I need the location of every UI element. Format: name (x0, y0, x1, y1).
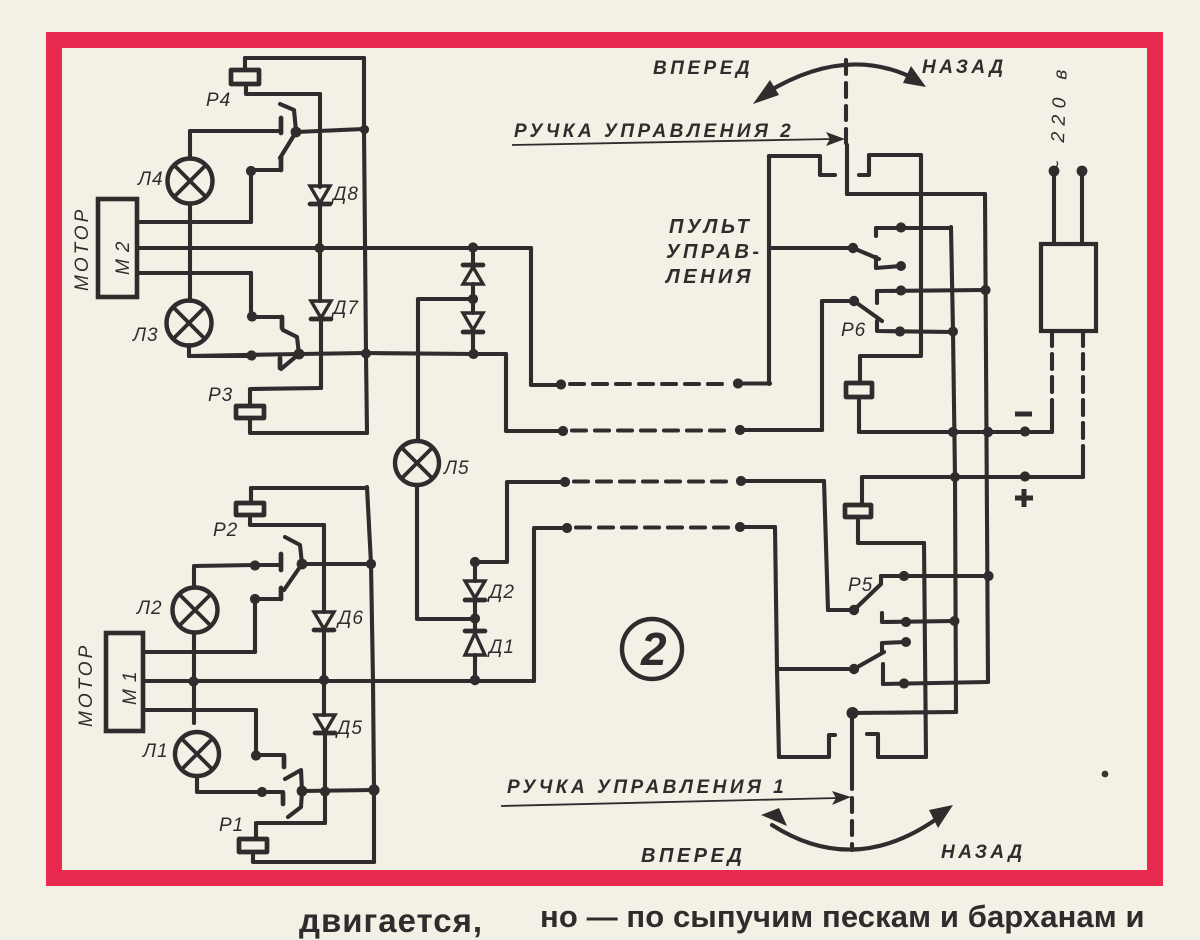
wire: top wire from relay P4 to right trunk (245, 56, 364, 60)
wire: series pair bottom (471, 332, 475, 354)
node: dot on P6 s2 lower row (895, 326, 905, 336)
svg-text:Р1: Р1 (219, 815, 244, 836)
wire: row4 leg down to bracket (775, 527, 779, 757)
svg-text:ВПЕРЕД: ВПЕРЕД (653, 58, 753, 79)
node: handle1 axis dot (847, 707, 859, 719)
wire: AC lead left (1052, 173, 1056, 244)
node: plus bus corner dot (1020, 471, 1030, 481)
wire: P4 contact row from lamp L4 (190, 129, 279, 133)
figure number circle 2 (622, 619, 682, 679)
wire: D2 column top (473, 562, 477, 581)
wire: L1 bottom to P1 row (197, 776, 262, 792)
wire: feed to P3 coil top (250, 388, 321, 406)
wire: row 2 right to P6 pivot riser (740, 428, 822, 432)
wire: L5 top branch (418, 299, 473, 441)
contact arm: P1 lower arm (288, 791, 302, 817)
wire: P2 coil bottom lead (250, 515, 324, 525)
arrowhead: handle 1 pointer (832, 791, 851, 805)
node: series pair / P3 row junction (468, 349, 478, 359)
contact bar: P1 lower fixed (281, 793, 286, 804)
node: lamp column / middle lead (188, 676, 198, 686)
wire: pult right trunk (985, 194, 988, 682)
node: dot on P5 s2 lower row (899, 678, 909, 688)
wire: link row 4 left riser (534, 528, 567, 681)
node: minus bus / right trunk (983, 427, 993, 437)
arrowhead: handle 2 pointer (826, 132, 845, 146)
contact arm: P3 upper arm (283, 330, 299, 354)
wire: supply plus output solid elbow (1081, 462, 1085, 477)
wire: L5 bottom branch (417, 485, 475, 619)
diode (lower of series pair, pointing down) (463, 313, 483, 332)
paper speck (1102, 771, 1109, 778)
label minus sign (1015, 412, 1032, 417)
contact arm: P6 switch2 (854, 301, 882, 321)
relay coil P4 (231, 70, 259, 84)
wire: lead3 riser to P3 upper throw (249, 273, 253, 316)
wire: lamp L4 top stub (188, 131, 192, 158)
node: P5 switch2 pivot (849, 664, 859, 674)
arrowhead: arc top left (753, 80, 779, 104)
svg-text:Л4: Л4 (136, 169, 164, 190)
diode D5 (315, 715, 335, 733)
arrowhead: arc bottom right (929, 805, 953, 828)
wire: P6 coil bottom lead (857, 397, 861, 432)
diode D6 (314, 612, 334, 630)
node: trunk / P4 contact row junction (360, 125, 369, 134)
node: P6 switch1 pivot (848, 243, 858, 253)
wire: M2 lead 2 (middle) (138, 246, 531, 250)
wire: M1 lead 3 (143, 708, 256, 712)
arrow arc (handle 1 travel) (772, 812, 946, 850)
wire: P6 switch2 pivot feed riser (820, 301, 824, 430)
wire: row 4 right to P5 lower pivot riser (740, 525, 775, 529)
contact hook: P6 s2 upper (875, 292, 879, 303)
svg-text:~ 220 в: ~ 220 в (1047, 63, 1072, 172)
svg-text:Д8: Д8 (331, 184, 359, 205)
wire: link row 2 left riser (506, 354, 563, 431)
contact arm: P2 lower arm (284, 564, 302, 590)
wire: minus bus (859, 430, 1052, 434)
node: AC terminal right (1077, 166, 1088, 177)
wire: lower right trunk (367, 487, 374, 862)
wire: diode column upper segment (318, 94, 322, 187)
wire: D6 to M1 middle lead (322, 630, 326, 680)
wire: D5 down to P1 coil feed (323, 733, 327, 823)
contact arm: P2 upper arm (285, 537, 302, 564)
node: P4 contact common (291, 127, 302, 138)
node: row 3 right terminal (736, 476, 746, 486)
node: P5 switch1 pivot (849, 605, 859, 615)
wire: lamp column L2 to L1 (192, 633, 196, 723)
node: lower trunk / P2 row junction (366, 559, 376, 569)
node: trunk / P5 row1 junction (983, 571, 993, 581)
svg-text:Д6: Д6 (336, 608, 364, 629)
contact: P5 s2 lower throw hook (881, 664, 885, 684)
node: corner dot P2 lower throw row (250, 594, 260, 604)
node: AC terminal left (1049, 166, 1060, 177)
wire: mid vertical (P6 row to handle1 axis) (951, 227, 956, 712)
power supply box (1041, 244, 1096, 331)
contact arm: P1 upper arm (285, 770, 302, 791)
wire: P4 coil bottom lead (246, 84, 320, 94)
svg-text:Р4: Р4 (206, 90, 231, 111)
wire: plus bus (862, 475, 1083, 479)
relay coil P5 (845, 505, 871, 517)
wire: P3 common to trunk (299, 353, 366, 354)
node: dot on P5 s1 upper row (899, 571, 909, 581)
wire: P1 coil bottom to trunk (253, 852, 374, 862)
node: P5 s2 upper stub terminal (901, 637, 911, 647)
svg-text:Р6: Р6 (841, 320, 866, 341)
node: column / M1 middle lead (319, 675, 329, 685)
arrowhead: arc bottom left (761, 808, 787, 826)
wire: lead3 riser to P1 upper throw (254, 710, 258, 755)
wire: M2 lead 3 (138, 271, 251, 275)
node: corner dot on P1 row (257, 787, 267, 797)
arrow arc (handle 2 travel) (766, 64, 915, 93)
wire: lamp L2 top to P2 row (194, 565, 255, 587)
wire: P4 common to trunk (296, 129, 364, 132)
svg-text:Д5: Д5 (335, 718, 363, 739)
wire: M2 lead 1 (138, 220, 251, 224)
wire: series diode column top (471, 248, 475, 265)
label plus sign (1015, 489, 1033, 507)
wire: lead1 riser to P2 lower throw (253, 599, 257, 652)
node: trunk / P3 contact row junction (361, 349, 371, 359)
wire: P4 coil top lead (243, 58, 247, 70)
lamp L2 (173, 588, 218, 633)
node: row 4 left terminal (562, 523, 572, 533)
node: corner dot P3 upper throw row (247, 311, 257, 321)
contact arm: P4 upper arm (280, 104, 296, 131)
wire: P2 lower throw row (255, 597, 281, 601)
svg-text:Д1: Д1 (487, 637, 515, 658)
diode D1 (465, 631, 485, 655)
wire: handle 2 axis solid (845, 145, 849, 194)
node: P6 s1 lower stub terminal (896, 261, 906, 271)
relay coil P2 (236, 503, 264, 515)
node: P3 contact common (294, 349, 305, 360)
handle 1 bracket left (779, 735, 835, 757)
wire: P5 coil bottom lead (858, 517, 924, 543)
node: mid vertical / P6 s2 lower row end (948, 327, 958, 337)
svg-text:Л1: Л1 (141, 741, 169, 762)
wire: P6 switch2 upper throw row to trunk (877, 290, 985, 291)
node: mid vertical / P5 s1 lower row end (950, 616, 960, 626)
handle 2 axis (dashed) (844, 60, 848, 145)
svg-text:М2: М2 (113, 235, 134, 275)
svg-text:МОТОР: МОТОР (76, 643, 97, 727)
wire: handle1 crossbar (852, 712, 956, 713)
caption text main part (540, 899, 1145, 935)
contact arm: P6 switch1 (853, 248, 879, 259)
lamp L4 (168, 159, 213, 204)
diode D2 (465, 581, 485, 600)
contact bar: P2 lower fixed (279, 588, 284, 599)
node: minus bus / mid vertical (948, 427, 958, 437)
contact arm: P5 switch2 (854, 652, 884, 669)
node: series pair midpoint (468, 294, 478, 304)
diode D7 (311, 301, 331, 319)
wire: P5 switch1 upper throw row to trunk (881, 574, 988, 578)
relay coil P1 (239, 839, 267, 852)
svg-text:УПРАВ-: УПРАВ- (666, 241, 763, 263)
node: diode column / M2 middle lead (314, 243, 324, 253)
svg-text:2: 2 (640, 623, 667, 675)
caption text cropped at page bottom (299, 902, 483, 940)
wire: P5 switch1 pivot riser (824, 481, 828, 610)
node: minus bus corner dot (1020, 426, 1030, 436)
lamp L5 (395, 441, 439, 485)
svg-text:М1: М1 (120, 665, 141, 705)
svg-text:Д2: Д2 (487, 582, 515, 603)
wire: lamp column L4 to L3 (188, 204, 192, 301)
wire: P6 switch1 pivot feed (770, 246, 853, 250)
contact hook: P6 s1 upper (874, 228, 878, 236)
wire: series pair middle (471, 284, 475, 313)
wire: P3 contact row (189, 354, 299, 356)
wire: row 1 right to pult (738, 381, 770, 385)
relay coil P3 (236, 406, 264, 418)
wire: pult left leg (row1 to bracket) (767, 156, 771, 384)
wire: link row 1 left riser (531, 248, 561, 385)
node: dot on P6 s2 upper row (896, 285, 906, 295)
handle 1 bracket right (867, 734, 926, 757)
wire: supply minus output solid elbow (1050, 409, 1054, 431)
node: corner dot on P3 row (246, 350, 256, 360)
wire: handle 1 axis solid (850, 713, 854, 775)
node: corner dot on P2 row (250, 560, 260, 570)
node: D1 / M1 middle lead junction (470, 675, 480, 685)
svg-text:Л3: Л3 (131, 325, 159, 346)
svg-text:ЛЕНИЯ: ЛЕНИЯ (664, 266, 754, 288)
contact bar: P2 upper fixed (279, 554, 284, 570)
node: D2/D1 midpoint (L5 branch) (470, 613, 480, 623)
wire: P3 coil bottom to trunk end (250, 418, 367, 433)
svg-text:Л2: Л2 (135, 598, 163, 619)
contact bar: P3 lower fixed (278, 358, 283, 368)
contact arm: P4 lower arm (280, 132, 296, 158)
wire: P4 lower throw row (251, 168, 281, 172)
wire: AC lead right (1080, 173, 1084, 244)
wire: P6 switch1 upper throw row (876, 226, 951, 230)
diode (upper of series pair, pointing up) (463, 265, 483, 284)
contact bar: P4 upper fixed (279, 118, 284, 133)
wire: P3 row extension to link riser (366, 353, 506, 354)
wire: P1 upper throw row (256, 753, 284, 757)
wire: middle lead to D7 (318, 248, 322, 301)
wire: right mid leg down to handle1 bracket (924, 543, 926, 757)
node: row 4 right terminal (735, 522, 745, 532)
node: D2 column top junction (470, 557, 480, 567)
wire: link row 3 left riser (475, 482, 565, 562)
contact bar: P1 upper fixed (282, 756, 287, 767)
wire: row 3 right to P5 pivot riser (741, 479, 824, 483)
motor M1 box (106, 633, 143, 731)
wire: P2 top wire to lower trunk (251, 486, 367, 490)
wire: link row 3 (dashed) (574, 479, 732, 483)
contact bar: P3 upper fixed (280, 317, 285, 328)
contact: P5 s2 upper throw stub (882, 642, 906, 652)
node: P2 contact common (297, 559, 308, 570)
contact arm: P5 switch1 (854, 585, 880, 610)
node: P6 switch2 pivot (849, 296, 859, 306)
node: trunk / P6 row2 junction (980, 285, 990, 295)
contact: P6 s2 lower throw (877, 321, 953, 332)
wire: P2 coil top lead (249, 488, 253, 503)
node: row 1 right terminal (733, 378, 743, 388)
wire: P3 upper throw row (252, 315, 282, 319)
node: row 1 left terminal (556, 379, 566, 389)
wire: handle 2 crossbar to trunk (847, 192, 985, 196)
wire: lead1 riser to P4 lower throw (249, 171, 253, 222)
contact: P6 s1 lower throw stub (876, 257, 901, 268)
wire: P5 switch2 pivot feed (777, 667, 854, 671)
arrowhead: arc top right (903, 66, 926, 87)
contact arm: P3 lower arm (281, 354, 299, 369)
arrow line: handle 1 pointer (501, 798, 838, 806)
handle 2 bracket left (769, 156, 835, 175)
svg-text:НАЗАД: НАЗАД (941, 842, 1026, 863)
svg-text:НАЗАД: НАЗАД (922, 57, 1007, 78)
wire: M1 lead 1 (143, 650, 255, 654)
wire: P5 switch1 pivot feed (828, 608, 854, 612)
node: row 2 right terminal (735, 425, 745, 435)
relay coil P6 (846, 383, 872, 397)
diode D8 (310, 186, 330, 204)
svg-text:МОТОР: МОТОР (72, 207, 93, 291)
wire: supply minus output (dashed) (1050, 331, 1054, 409)
node: lower trunk / P1 row junction (368, 784, 379, 795)
contact: P5 s1 lower throw row (882, 613, 954, 622)
wire: P5 s2 lower row to trunk (883, 682, 988, 684)
svg-text:ВПЕРЕД: ВПЕРЕД (641, 845, 745, 867)
wire: P2 row to fixed bar (255, 563, 280, 567)
wire: P1 row to lower fixed bar (262, 790, 283, 794)
wire: upper right trunk (364, 58, 367, 433)
wire: D8 to middle lead (318, 204, 322, 248)
wire: D7 down to P3 coil feed (319, 319, 323, 388)
wire: P5 coil top lead (860, 477, 864, 505)
node: corner dot P4 lower throw row (246, 166, 256, 176)
node: dot on P5 s1 lower row (901, 617, 911, 627)
wire: supply plus output (dashed) (1081, 331, 1085, 462)
wire: link row 1 (dashed) (570, 382, 730, 386)
handle 1 axis (dashed) (850, 775, 854, 850)
wire: P1 common to trunk (302, 790, 374, 791)
node: column / P1 row junction (320, 786, 330, 796)
wire: middle lead to D5 (322, 680, 326, 715)
wire: D1 to M1 middle lead (473, 655, 477, 681)
motor M2 box (98, 199, 137, 297)
wire: P2 common to trunk (302, 562, 371, 566)
wire: bracket leg down to P6 coil feed (860, 155, 921, 383)
node: row 3 left terminal (560, 477, 570, 487)
wire: L3 bottom to P3 row (189, 345, 251, 356)
wire: P6 switch2 pivot feed (822, 299, 854, 303)
wire: link row 2 (dashed) (572, 428, 731, 432)
contact bar: P4 lower fixed (279, 157, 284, 170)
node: dot on P6 s1 upper row (896, 222, 906, 232)
svg-text:ПУЛЬТ: ПУЛЬТ (669, 216, 752, 238)
svg-text:Д7: Д7 (331, 298, 359, 319)
node: middle lead / series diode column (468, 242, 478, 252)
node: row 2 left terminal (558, 426, 568, 436)
handle 2 bracket right (859, 155, 921, 175)
svg-text:РУЧКА УПРАВЛЕНИЯ 1: РУЧКА УПРАВЛЕНИЯ 1 (507, 777, 787, 798)
svg-text:Р3: Р3 (208, 385, 233, 406)
wire: link row 4 (dashed) (576, 525, 731, 529)
svg-text:РУЧКА УПРАВЛЕНИЯ 2: РУЧКА УПРАВЛЕНИЯ 2 (514, 121, 794, 142)
node: mid vertical / plus bus (950, 472, 960, 482)
wire: M1 lead 2 (middle) (143, 679, 534, 683)
arrow line: handle 2 pointer (512, 139, 832, 145)
wire: D2 to midpoint (473, 600, 477, 631)
node: P1 contact common (297, 786, 308, 797)
svg-text:Р2: Р2 (213, 520, 238, 541)
lamp L3 (167, 301, 212, 346)
wire: column to D6 (322, 525, 326, 612)
wire: feed to P1 coil top (256, 823, 325, 839)
contact hook: P5 s1 upper (879, 576, 883, 584)
lamp L1 (175, 732, 219, 776)
svg-text:Л5: Л5 (442, 458, 470, 479)
svg-text:Р5: Р5 (848, 575, 873, 596)
node: corner dot P1 upper throw row (251, 750, 261, 760)
